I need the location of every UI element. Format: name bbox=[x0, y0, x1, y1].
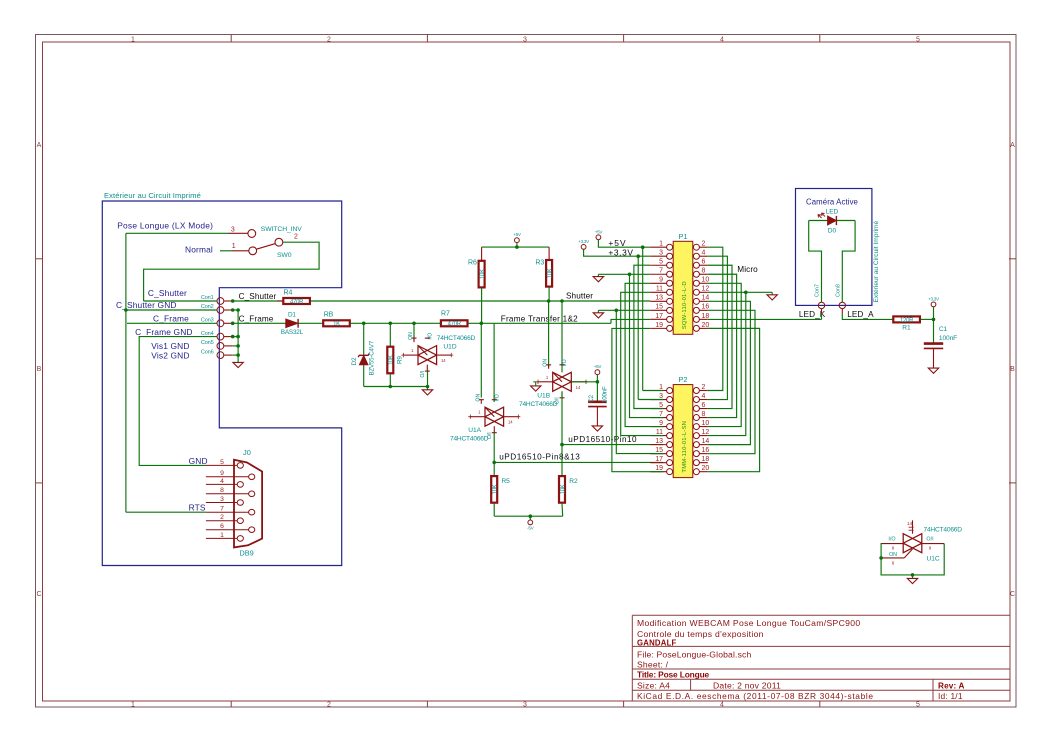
resistor R4 470R bbox=[277, 300, 282, 302]
connector pin Con2 bbox=[217, 307, 224, 314]
svg-text:5: 5 bbox=[220, 459, 224, 466]
svg-text:14: 14 bbox=[508, 420, 513, 425]
svg-text:4: 4 bbox=[720, 37, 724, 44]
ground symbol under U1D bbox=[427, 387, 429, 390]
svg-text:Vis2 GND: Vis2 GND bbox=[151, 351, 189, 361]
svg-text:15: 15 bbox=[655, 304, 663, 311]
wire RB to R7 with taps bbox=[350, 322, 440, 324]
svg-text:R5: R5 bbox=[502, 478, 511, 485]
svg-text:D2: D2 bbox=[351, 357, 358, 365]
resistor R6 10K (vertical) bbox=[481, 247, 483, 260]
svg-text:Normal: Normal bbox=[185, 245, 213, 255]
svg-text:1: 1 bbox=[659, 241, 663, 248]
power +5V symbol above C2 bbox=[595, 370, 600, 375]
svg-text:120R: 120R bbox=[900, 318, 914, 324]
op-amp style analog switch U1A 74HCT4066D bowtie bbox=[485, 407, 504, 426]
svg-text:Con1: Con1 bbox=[201, 295, 214, 301]
wire P1 pin16 to P2 pin16 bbox=[708, 310, 755, 453]
svg-text:C_Shutter: C_Shutter bbox=[148, 288, 187, 298]
capacitor C2 100nF bbox=[596, 382, 598, 402]
svg-text:U1D: U1D bbox=[443, 344, 456, 351]
ground under C2 bbox=[596, 407, 598, 426]
svg-text:5: 5 bbox=[916, 702, 920, 709]
svg-text:2: 2 bbox=[294, 234, 298, 241]
wire D1 to RB bbox=[298, 322, 323, 324]
svg-text:ON: ON bbox=[543, 359, 549, 367]
svg-text:15: 15 bbox=[655, 447, 663, 454]
LED D0 inside camera box bbox=[809, 220, 828, 222]
ground under U1C bbox=[912, 575, 914, 579]
svg-text:14: 14 bbox=[441, 358, 446, 363]
diode D1 BAS32L bbox=[233, 322, 286, 324]
svg-text:4: 4 bbox=[702, 393, 706, 400]
svg-text:8: 8 bbox=[702, 411, 706, 418]
svg-text:I/O: I/O bbox=[562, 359, 568, 366]
ground left of P1 pin7 bbox=[597, 274, 599, 276]
svg-text:9: 9 bbox=[659, 420, 663, 427]
svg-text:C1: C1 bbox=[939, 326, 948, 333]
svg-text:16: 16 bbox=[702, 304, 710, 311]
svg-text:Shutter: Shutter bbox=[566, 292, 593, 301]
wire RTS to DB9 pin7 bbox=[126, 511, 206, 513]
svg-text:O/I: O/I bbox=[420, 371, 426, 378]
svg-text:3: 3 bbox=[523, 702, 527, 709]
ground right of P1 pin12 bbox=[771, 292, 773, 295]
switch SW0 SWITCH_INV bbox=[228, 230, 283, 255]
svg-text:9: 9 bbox=[929, 546, 932, 551]
svg-text:6: 6 bbox=[702, 402, 706, 409]
svg-text:4: 4 bbox=[720, 702, 724, 709]
wire P1 pin2 to P2 pin2 bbox=[708, 247, 723, 390]
svg-text:U1A: U1A bbox=[468, 427, 481, 434]
op-amp style analog switch U1B 74HCT4066D bowtie bbox=[553, 372, 572, 391]
svg-text:19: 19 bbox=[655, 322, 663, 329]
svg-text:U1B: U1B bbox=[537, 392, 550, 399]
svg-text:TMM-110-01-L-SN: TMM-110-01-L-SN bbox=[682, 421, 688, 473]
connector pin Con6 bbox=[217, 352, 224, 359]
svg-text:File: PoseLongue-Global.sch: File: PoseLongue-Global.sch bbox=[637, 650, 751, 660]
svg-text:R3: R3 bbox=[535, 259, 544, 266]
wire D2 to ground rail bbox=[363, 365, 365, 387]
wire P1 pin8 to P2 pin8 bbox=[708, 274, 737, 417]
svg-text:14: 14 bbox=[907, 521, 913, 526]
svg-text:Date: 2 nov 2011: Date: 2 nov 2011 bbox=[713, 681, 781, 691]
connector P1 20-pin bbox=[673, 241, 693, 334]
wire Shutter down to U1B top pin bbox=[561, 301, 563, 372]
svg-text:RTS: RTS bbox=[189, 503, 206, 513]
svg-text:Extérieur au Circuit Imprimé: Extérieur au Circuit Imprimé bbox=[873, 220, 880, 302]
wire R5 bottom to -5V rail bbox=[493, 504, 495, 517]
svg-text:+3,3V: +3,3V bbox=[578, 239, 590, 244]
wire P1 pin6 to P2 pin6 bbox=[708, 265, 732, 408]
DB9 pin 6 bbox=[206, 529, 249, 531]
junction dots at Con pins bbox=[231, 299, 235, 303]
svg-text:74HCT4066D: 74HCT4066D bbox=[924, 526, 963, 533]
connector P2 20-pin bbox=[673, 385, 693, 478]
svg-text:ON: ON bbox=[408, 332, 414, 340]
svg-text:10: 10 bbox=[702, 420, 710, 427]
svg-text:14: 14 bbox=[702, 295, 710, 302]
wire R1 to +3,3V / C1 junction bbox=[921, 318, 934, 320]
wire R6 bottom down to Frame Transfer line bbox=[481, 288, 483, 323]
wire R3 bottom down to Shutter line bbox=[548, 288, 550, 302]
svg-text:SQW-110-01-L-D: SQW-110-01-L-D bbox=[682, 281, 688, 329]
svg-text:7: 7 bbox=[659, 411, 663, 418]
svg-text:470R: 470R bbox=[448, 322, 462, 328]
svg-text:R2: R2 bbox=[569, 478, 578, 485]
wire +5V rail between R6 and R3 tops bbox=[482, 246, 549, 248]
wire C_Frame down to R9 bbox=[389, 323, 391, 346]
svg-text:9: 9 bbox=[659, 277, 663, 284]
wire P1 pin20 to P2 pin20 bbox=[708, 328, 760, 471]
svg-text:D0: D0 bbox=[828, 228, 837, 235]
svg-text:10K: 10K bbox=[547, 268, 553, 278]
svg-text:J0: J0 bbox=[243, 448, 251, 457]
svg-text:uPD16510-Pin10: uPD16510-Pin10 bbox=[568, 435, 637, 444]
svg-text:B: B bbox=[1010, 366, 1015, 373]
wire uPD16510-Pin10 to P2 pin13 bbox=[562, 444, 663, 446]
svg-text:13: 13 bbox=[655, 438, 663, 445]
DB9 pin 8 bbox=[206, 493, 249, 495]
svg-text:Frame Transfer 1&2: Frame Transfer 1&2 bbox=[501, 314, 578, 323]
svg-text:1K: 1K bbox=[333, 322, 340, 328]
wire R7 right / Frame Transfer net bbox=[468, 322, 611, 324]
wire P1 pin7 to P2 pin7 with ground bbox=[598, 273, 650, 275]
wire Con1 to R4 bbox=[233, 300, 283, 302]
svg-text:DB9: DB9 bbox=[239, 548, 253, 557]
svg-text:R7: R7 bbox=[441, 311, 450, 318]
svg-text:I/O: I/O bbox=[888, 537, 895, 543]
dashed box Exterieur au Circuit Imprime (left) bbox=[102, 201, 341, 566]
svg-text:3: 3 bbox=[231, 226, 235, 233]
wire U1A bottom pin to R5 and Pin8&13 net bbox=[493, 433, 495, 476]
svg-text:R9: R9 bbox=[397, 356, 404, 364]
svg-text:C_Frame: C_Frame bbox=[153, 313, 189, 323]
wire P1 pin5 to P2 pin5 bbox=[634, 265, 663, 408]
svg-text:SWITCH_INV: SWITCH_INV bbox=[261, 226, 302, 233]
resistor R7 470R bbox=[441, 320, 468, 326]
svg-text:D1: D1 bbox=[288, 312, 296, 319]
zener diode D2 BZV55-C4V7 bbox=[359, 355, 368, 365]
svg-text:uPD16510-Pin8&13: uPD16510-Pin8&13 bbox=[499, 453, 580, 462]
svg-text:Con5: Con5 bbox=[201, 340, 214, 346]
wire Con7 down to LED_K net bbox=[821, 313, 823, 319]
wire R9 to ground rail bbox=[389, 374, 391, 386]
svg-text:1: 1 bbox=[659, 384, 663, 391]
svg-text:10K: 10K bbox=[389, 355, 395, 365]
svg-text:R6: R6 bbox=[468, 259, 477, 266]
svg-text:2: 2 bbox=[327, 37, 331, 44]
wire P1 pin18 to LED_K bbox=[708, 318, 822, 320]
svg-text:Caméra Active: Caméra Active bbox=[806, 198, 858, 207]
wire C_Frame GND to Con4 and down to DB9 GND bbox=[139, 337, 217, 466]
svg-text:18: 18 bbox=[702, 313, 710, 320]
connector pin Con7 bbox=[818, 302, 824, 308]
svg-text:19: 19 bbox=[655, 465, 663, 472]
power +3,3V symbol left of P1 bbox=[581, 245, 586, 250]
svg-text:20: 20 bbox=[702, 322, 710, 329]
svg-text:10: 10 bbox=[702, 277, 710, 284]
ground rail under D2/R9/U1D bbox=[364, 386, 428, 388]
svg-text:GND: GND bbox=[189, 456, 208, 466]
svg-text:LED_A: LED_A bbox=[847, 310, 874, 319]
svg-text:Sheet: /: Sheet: / bbox=[637, 659, 669, 669]
wire +5V to P1 pin1 and down to P2 pin1 bbox=[598, 240, 650, 248]
svg-text:2: 2 bbox=[702, 384, 706, 391]
resistor R2 10K (vertical) bbox=[559, 476, 565, 503]
svg-text:100nF: 100nF bbox=[939, 335, 957, 342]
wire LED cathode to Con7 bbox=[809, 221, 822, 303]
svg-text:8: 8 bbox=[892, 546, 895, 551]
resistor R9 10K (vertical) bbox=[387, 347, 393, 374]
svg-text:B: B bbox=[37, 366, 42, 373]
wire LED anode to Con8 bbox=[842, 221, 855, 303]
svg-text:GANDALF: GANDALF bbox=[637, 638, 677, 647]
svg-text:KiCad E.D.A. eeschema (2011-0: KiCad E.D.A. eeschema (2011-07-08 BZR 30… bbox=[637, 691, 874, 701]
wire C_Frame down to U1D ON pin bbox=[413, 323, 415, 340]
wire R4 to R3 junction and P1 pin13 (Shutter net) bbox=[311, 300, 650, 302]
svg-text:BZV55-C4V7: BZV55-C4V7 bbox=[369, 340, 376, 375]
svg-text:11: 11 bbox=[656, 429, 663, 436]
svg-text:17: 17 bbox=[655, 456, 663, 463]
svg-text:3: 3 bbox=[523, 37, 527, 44]
svg-text:Con2: Con2 bbox=[201, 304, 214, 310]
svg-text:RB: RB bbox=[324, 311, 334, 318]
svg-text:3: 3 bbox=[659, 250, 663, 257]
svg-text:C: C bbox=[1010, 591, 1015, 598]
svg-text:13: 13 bbox=[655, 295, 663, 302]
svg-text:8: 8 bbox=[220, 487, 224, 494]
svg-text:6: 6 bbox=[220, 523, 224, 530]
svg-text:3: 3 bbox=[220, 496, 224, 503]
power +5V symbol above R6/R3 rail bbox=[515, 238, 520, 243]
wire Shutter down to U1B ON pin bbox=[548, 301, 550, 367]
svg-text:2: 2 bbox=[327, 702, 331, 709]
svg-text:18: 18 bbox=[702, 456, 710, 463]
svg-text:2: 2 bbox=[220, 514, 224, 521]
ground under C1 bbox=[933, 348, 935, 368]
svg-text:Con7: Con7 bbox=[815, 284, 821, 297]
wire Frame Transfer down to U1A top pin bbox=[493, 323, 495, 402]
box Camera Active (right) bbox=[796, 189, 872, 306]
wire +3,3V to P1 pin3 and down to P2 pin3 bbox=[584, 249, 651, 256]
connector pin Con1 bbox=[217, 298, 224, 305]
svg-text:17: 17 bbox=[655, 313, 663, 320]
svg-text:10K: 10K bbox=[493, 484, 499, 494]
svg-text:20: 20 bbox=[702, 465, 710, 472]
svg-text:C2: C2 bbox=[588, 394, 595, 402]
wire C_Frame to Con3 bbox=[127, 322, 217, 324]
svg-text:10K: 10K bbox=[480, 269, 486, 279]
svg-text:12: 12 bbox=[702, 286, 710, 293]
wire P1 pin4 to P2 pin4 bbox=[708, 256, 728, 399]
svg-text:R4: R4 bbox=[284, 289, 293, 296]
svg-text:R1: R1 bbox=[902, 324, 911, 331]
svg-text:6: 6 bbox=[702, 259, 706, 266]
svg-text:11: 11 bbox=[656, 286, 663, 293]
svg-text:+3,3V: +3,3V bbox=[608, 247, 633, 257]
wire Frame Transfer jog to P1 pin17 bbox=[611, 319, 650, 323]
svg-text:+5V: +5V bbox=[594, 364, 603, 369]
wire U1B right pin to C2 junction bbox=[571, 381, 597, 383]
wire switch pin2 loop to C_Shutter bbox=[144, 242, 320, 301]
svg-text:Con6: Con6 bbox=[201, 349, 214, 355]
DB9 pin 5 bbox=[206, 464, 237, 466]
svg-text:7: 7 bbox=[220, 506, 224, 513]
svg-text:C: C bbox=[36, 591, 41, 598]
svg-text:Pose Longue (LX Mode): Pose Longue (LX Mode) bbox=[117, 220, 213, 230]
power +3,3V above C1 bbox=[931, 302, 936, 307]
svg-text:9: 9 bbox=[220, 470, 224, 477]
title block bbox=[632, 615, 1009, 701]
connector pin Con3 bbox=[217, 320, 224, 327]
svg-text:Micro: Micro bbox=[737, 265, 758, 274]
wire C_Frame down to zener D2 bbox=[363, 323, 365, 355]
svg-text:P2: P2 bbox=[679, 375, 688, 384]
svg-text:3: 3 bbox=[659, 393, 663, 400]
wire net Normal to switch pin 1 bbox=[220, 250, 232, 252]
resistor R3 10K (vertical) bbox=[548, 247, 550, 259]
connector pin Con5 bbox=[217, 343, 224, 350]
wire P1 pin12 to P2 pin12 bbox=[708, 291, 772, 293]
svg-text:1: 1 bbox=[131, 702, 135, 709]
connector pin Con4 bbox=[217, 333, 224, 340]
wire U1C tie-off loop bbox=[881, 544, 945, 575]
svg-text:10K: 10K bbox=[560, 484, 566, 494]
svg-text:Rev: A: Rev: A bbox=[938, 682, 965, 691]
capacitor C1 100nF bbox=[933, 319, 935, 343]
DB9 pin 3 bbox=[206, 502, 237, 504]
svg-text:14: 14 bbox=[576, 385, 581, 390]
svg-text:Size: A4: Size: A4 bbox=[637, 681, 670, 691]
connector pin Con8 bbox=[839, 302, 845, 308]
svg-text:A: A bbox=[1010, 142, 1015, 149]
svg-text:5: 5 bbox=[916, 37, 920, 44]
svg-text:14: 14 bbox=[702, 438, 710, 445]
svg-text:6: 6 bbox=[892, 560, 895, 565]
svg-text:8: 8 bbox=[702, 268, 706, 275]
ground left of P1 pin15 bbox=[597, 310, 599, 313]
svg-text:P1: P1 bbox=[679, 232, 688, 241]
resistor RB 1K bbox=[323, 320, 350, 326]
resistor R5 10K (vertical) bbox=[491, 476, 497, 503]
wire U1B bottom pin down to R2 bbox=[561, 391, 563, 475]
svg-text:BAS32L: BAS32L bbox=[281, 329, 304, 336]
wire P1 pin9 to P2 pin9 bbox=[625, 283, 663, 426]
svg-text:5: 5 bbox=[659, 402, 663, 409]
svg-text:I/O: I/O bbox=[494, 394, 500, 401]
DB9 pin 2 bbox=[206, 520, 237, 522]
wire R7/R6 junction down to U1A ON pin bbox=[480, 323, 482, 397]
svg-text:Title: Pose Longue: Title: Pose Longue bbox=[637, 670, 710, 680]
svg-text:Id: 1/1: Id: 1/1 bbox=[938, 691, 963, 701]
svg-text:74HCT4066D: 74HCT4066D bbox=[437, 335, 476, 342]
wire Con2/Con4/Con5/Con6 ground bus bbox=[233, 309, 238, 311]
svg-text:I/O: I/O bbox=[427, 333, 433, 340]
analog switch U1C 74HCT4066D (spare, tied off) bbox=[903, 534, 922, 553]
wire P1 pin19 to P2 pin19 bbox=[612, 328, 663, 471]
svg-text:ON: ON bbox=[889, 552, 897, 558]
svg-text:U1C: U1C bbox=[927, 555, 940, 562]
svg-text:12: 12 bbox=[702, 429, 710, 436]
svg-text:7: 7 bbox=[659, 268, 663, 275]
wire P1 pin10 to P2 pin10 bbox=[708, 283, 741, 426]
svg-text:2: 2 bbox=[702, 241, 706, 248]
svg-text:Con4: Con4 bbox=[201, 331, 214, 337]
resistor R1 120R bbox=[893, 316, 920, 322]
power +5V symbol left of P1 bbox=[596, 235, 601, 240]
svg-text:4: 4 bbox=[220, 478, 224, 485]
op-amp style analog switch U1D 74HCT4066D bowtie bbox=[418, 346, 437, 365]
ground below Con pins bbox=[233, 362, 243, 367]
svg-text:1: 1 bbox=[232, 243, 236, 250]
wire C_Shutter to Con1 bbox=[144, 300, 217, 302]
wire vertical from switch pin3 / C_Shutter GND / RTS bbox=[125, 233, 127, 512]
svg-text:1: 1 bbox=[131, 37, 135, 44]
svg-text:Extérieur au Circuit Imprimé: Extérieur au Circuit Imprimé bbox=[104, 191, 201, 200]
wire Con8 down then right to R1 bbox=[842, 313, 892, 319]
svg-text:+5V: +5V bbox=[513, 232, 522, 237]
svg-text:C_Shutter: C_Shutter bbox=[239, 292, 277, 301]
svg-text:470R: 470R bbox=[290, 299, 304, 305]
svg-text:C_Frame: C_Frame bbox=[239, 315, 274, 324]
svg-text:O/I: O/I bbox=[926, 537, 933, 543]
wire net LX-mode to switch pin 3 bbox=[126, 232, 228, 234]
svg-text:A: A bbox=[37, 142, 42, 149]
ground at U1B left pin bbox=[531, 386, 541, 391]
wire R2 bottom to -5V rail bbox=[561, 504, 564, 517]
svg-text:16: 16 bbox=[702, 447, 710, 454]
svg-text:LED: LED bbox=[826, 209, 839, 216]
svg-text:Modification WEBCAM Pose Longu: Modification WEBCAM Pose Longue TouCam/S… bbox=[637, 618, 860, 628]
svg-text:Con3: Con3 bbox=[201, 318, 214, 324]
DB9 pin 7 bbox=[206, 511, 249, 513]
svg-text:74HCT4066D: 74HCT4066D bbox=[519, 401, 558, 408]
svg-text:+5V: +5V bbox=[595, 229, 604, 234]
wire C_Shutter GND to Con2 bbox=[126, 309, 217, 311]
wire P1 pin15 to P2 pin15 with ground bbox=[598, 309, 650, 311]
bottom rail R5/R2 with -5V power bbox=[494, 515, 563, 517]
svg-text:5: 5 bbox=[659, 259, 663, 266]
svg-text:SW0: SW0 bbox=[277, 252, 292, 259]
wire P1 pin11 to P2 pin11 bbox=[621, 292, 664, 435]
svg-text:4: 4 bbox=[702, 250, 706, 257]
DB9 pin 4 bbox=[206, 483, 237, 485]
svg-text:1: 1 bbox=[220, 532, 224, 539]
svg-text:Con8: Con8 bbox=[835, 284, 841, 297]
wire U1D bottom pin to ground rail bbox=[427, 371, 429, 386]
svg-text:ON: ON bbox=[475, 394, 481, 402]
svg-text:74HCT4066D: 74HCT4066D bbox=[450, 436, 489, 443]
wire uPD16510-Pin8&13 to P2 pin17 bbox=[494, 461, 663, 463]
svg-text:+3,3V: +3,3V bbox=[928, 296, 940, 301]
wire P1 pin14 to P2 pin14 bbox=[708, 301, 751, 444]
DB9 pin 9 bbox=[206, 476, 249, 478]
DB9 pin 1 bbox=[206, 537, 237, 539]
svg-text:C_Frame GND: C_Frame GND bbox=[135, 327, 193, 337]
svg-text:100nF: 100nF bbox=[601, 386, 608, 403]
